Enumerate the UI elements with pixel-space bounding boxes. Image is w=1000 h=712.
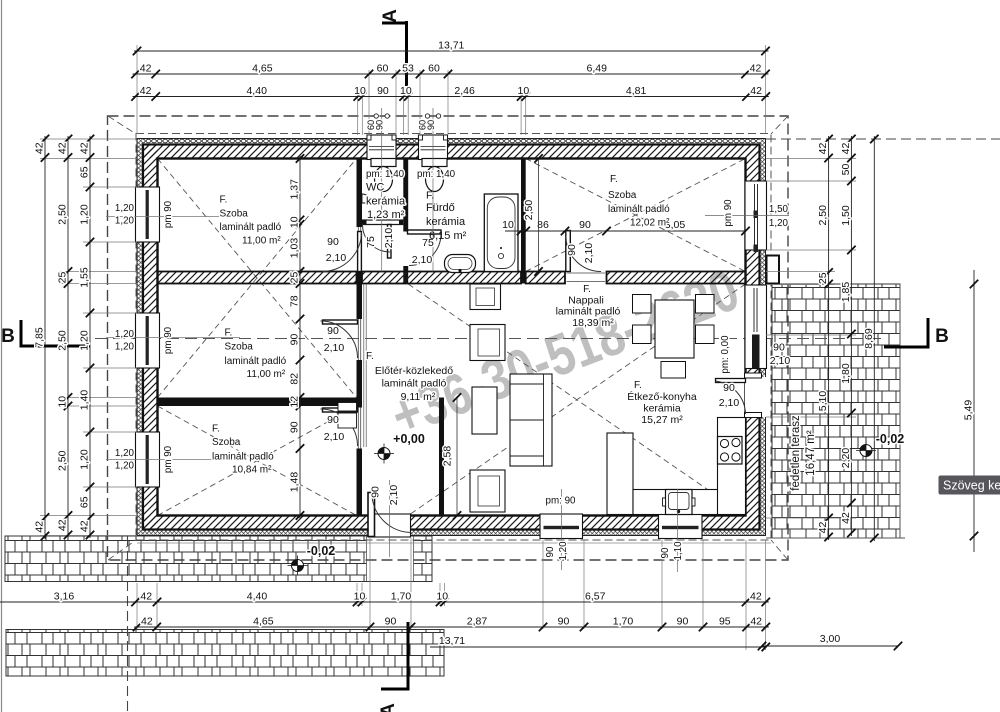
svg-text:90: 90 (426, 120, 436, 130)
dashed vertical through lower terraces (127, 536, 129, 712)
level marker entry (374, 444, 394, 464)
svg-text:42: 42 (750, 616, 762, 628)
svg-text:1,20: 1,20 (115, 203, 135, 214)
svg-text:90: 90 (566, 244, 578, 256)
door labels szoba2 (324, 325, 345, 354)
wall E horizontal szoba2/szoba3 (158, 398, 357, 407)
door labels szoba3 (324, 414, 345, 443)
wall C bath/szoba x521-526 (521, 159, 526, 284)
kitchen counter right (718, 418, 746, 515)
svg-text:1,50: 1,50 (769, 204, 789, 215)
svg-text:6,49: 6,49 (587, 63, 608, 75)
door labels szoba right (566, 243, 595, 264)
svg-text:Szoba: Szoba (225, 342, 254, 353)
WC stub wall west (362, 220, 367, 225)
svg-text:5,49: 5,49 (963, 400, 975, 421)
svg-text:A: A (378, 703, 399, 712)
room label WC (366, 169, 406, 221)
dimension chain left outer (34, 135, 50, 540)
dimension row bottom 2 (133, 616, 770, 632)
svg-text:1,20: 1,20 (79, 330, 91, 351)
svg-text:90: 90 (773, 342, 785, 354)
entry door bottom (368, 493, 412, 538)
entry door centre line (389, 480, 391, 557)
svg-text:53: 53 (402, 63, 414, 75)
svg-text:2,10: 2,10 (388, 485, 400, 506)
svg-text:2,10: 2,10 (324, 342, 345, 354)
svg-text:F.: F. (634, 380, 642, 391)
svg-text:42: 42 (34, 142, 46, 154)
page left border line (1, 0, 3, 712)
wall A below door 3 (357, 449, 363, 516)
dimension chain far right (963, 270, 979, 552)
svg-text:4,40: 4,40 (247, 591, 268, 603)
dimension row top 3 (131, 85, 770, 101)
svg-text:90: 90 (327, 236, 339, 248)
section line B dashed (95, 338, 883, 340)
svg-text:18,39 m²: 18,39 m² (572, 317, 614, 329)
dimension chain right B (840, 135, 856, 537)
level marker terrace strip (288, 556, 308, 576)
door labels szoba1 (326, 236, 347, 264)
outer wall left (137, 139, 158, 536)
svg-text:2,58: 2,58 (442, 446, 454, 467)
svg-text:1,03: 1,03 (289, 238, 301, 259)
svg-text:42: 42 (141, 616, 153, 628)
svg-text:kerámia: kerámia (366, 196, 406, 208)
svg-text:-0,02: -0,02 (307, 544, 336, 558)
diagonal szoba1-2 a (158, 159, 357, 398)
svg-text:laminált padló: laminált padló (608, 204, 670, 215)
svg-text:pm 90: pm 90 (163, 326, 174, 354)
svg-text:25: 25 (817, 272, 829, 284)
svg-text:42: 42 (817, 143, 829, 155)
door szoba right (566, 231, 601, 272)
door labels bath (412, 237, 434, 266)
sill labels bottom windows (545, 541, 684, 561)
door bath (408, 230, 442, 266)
terrace door kitchen (716, 373, 767, 418)
svg-text:4,65: 4,65 (253, 616, 274, 628)
extension lines right (766, 159, 905, 539)
svg-text:42: 42 (34, 521, 46, 533)
diagonal szoba3 a (158, 406, 357, 516)
svg-text:1,10: 1,10 (673, 541, 684, 561)
text box overlay Szoveg (939, 476, 1000, 495)
svg-text:pm: 1,40: pm: 1,40 (366, 169, 405, 180)
chain szoba right depth 2,50 (523, 154, 543, 275)
svg-text:78: 78 (289, 295, 301, 307)
diagonal szoba1-2 b (158, 159, 357, 398)
svg-text:10: 10 (502, 219, 514, 231)
window bottom living (540, 514, 583, 539)
window left szoba1 (136, 187, 160, 242)
centre marks on dashed line (374, 114, 441, 118)
svg-text:F.: F. (220, 195, 228, 206)
svg-text:13,71: 13,71 (439, 635, 465, 647)
bathtub (484, 194, 518, 272)
svg-text:10: 10 (289, 216, 301, 228)
svg-text:1,20: 1,20 (79, 204, 91, 225)
svg-text:8,69: 8,69 (863, 328, 875, 349)
svg-text:F.: F. (610, 174, 618, 185)
svg-text:90: 90 (723, 382, 735, 394)
wall B WC/bath x403-408 (403, 159, 408, 232)
svg-text:10: 10 (57, 396, 69, 408)
svg-text:2,87: 2,87 (467, 616, 488, 628)
right window centre line (705, 215, 789, 217)
svg-text:10: 10 (354, 591, 366, 603)
dimension row top 2 (131, 63, 769, 79)
terrace strip bottom-left (5, 536, 432, 582)
svg-text:86: 86 (537, 219, 549, 231)
eaves line below bottom wall (137, 542, 771, 544)
section mark A top (380, 9, 407, 86)
svg-text:12: 12 (289, 396, 301, 408)
eaves dashed rectangle (136, 134, 771, 541)
svg-text:42: 42 (840, 143, 852, 155)
corner tie SW (108, 540, 136, 560)
dashed line top right (766, 138, 1000, 140)
svg-text:1,55: 1,55 (79, 267, 91, 288)
wall D horizontal y271-283 west (szoba1/szoba2) (158, 272, 357, 284)
wall D middle under WC/bath (362, 272, 521, 284)
window right szoba (1.50) (745, 181, 767, 252)
armchair 1 (470, 325, 505, 361)
svg-text:90: 90 (370, 486, 382, 498)
svg-text:A: A (380, 9, 401, 23)
insulation top (137, 139, 766, 145)
section mark B right (884, 318, 949, 349)
stove (718, 437, 743, 465)
svg-text:pm: 1,40: pm: 1,40 (417, 169, 456, 180)
section mark A bottom (378, 622, 408, 712)
room label szoba2 (225, 328, 287, 381)
sofa (510, 374, 552, 466)
room label szoba3 (212, 424, 274, 476)
room label kitchen (627, 380, 697, 426)
svg-text:90: 90 (579, 219, 591, 231)
wall D east segment 1 (526, 272, 565, 284)
svg-text:2,10: 2,10 (770, 355, 791, 367)
svg-text:90: 90 (289, 421, 301, 433)
svg-text:16,47 m²: 16,47 m² (805, 430, 817, 476)
svg-text:B: B (1, 326, 15, 347)
corridor strip edge lines (363, 284, 365, 447)
svg-text:10,84 m²: 10,84 m² (232, 465, 272, 476)
dimension row bottom 1 (0, 591, 770, 607)
sill label right window (769, 204, 789, 229)
svg-text:1,20: 1,20 (558, 541, 569, 561)
svg-text:2,10: 2,10 (383, 228, 395, 249)
svg-text:1,20: 1,20 (115, 342, 135, 353)
svg-text:1,70: 1,70 (613, 616, 634, 628)
room label nappali (556, 284, 621, 329)
svg-text:90: 90 (327, 414, 339, 426)
outer wall right (746, 139, 766, 536)
svg-text:4,65: 4,65 (252, 63, 273, 75)
svg-text:3,16: 3,16 (54, 591, 75, 603)
wardrobe szoba3 (338, 403, 357, 429)
svg-text:+0,00: +0,00 (393, 432, 425, 446)
diagonal living b (408, 284, 745, 516)
svg-text:2,10: 2,10 (324, 431, 345, 443)
svg-text:F.: F. (583, 284, 591, 295)
svg-text:Szoba: Szoba (608, 190, 637, 201)
room label eloter (366, 351, 453, 403)
dimension chain right A (817, 135, 833, 541)
svg-text:42: 42 (57, 519, 69, 531)
svg-text:1,20: 1,20 (79, 449, 91, 470)
svg-text:65: 65 (79, 496, 91, 508)
chain interior x300 (289, 154, 305, 519)
room label szoba right (608, 174, 670, 229)
door WC (363, 225, 392, 259)
wall A vertical x357-362 upper (357, 159, 363, 228)
diagonal szoba-right b (526, 159, 746, 272)
svg-text:1,20: 1,20 (115, 448, 135, 459)
svg-text:25: 25 (57, 272, 69, 284)
sill labels left windows (115, 203, 135, 472)
svg-text:pm 90: pm 90 (163, 200, 174, 228)
svg-text:laminált padló: laminált padló (382, 378, 447, 390)
svg-text:7,85: 7,85 (34, 327, 46, 348)
top window labels 60 90 (366, 120, 436, 130)
svg-text:1,23 m²: 1,23 m² (367, 209, 405, 221)
svg-text:2,50: 2,50 (57, 450, 69, 471)
svg-text:1,48: 1,48 (289, 472, 301, 493)
svg-text:kerámia: kerámia (643, 403, 681, 415)
labels 90 2,10 living terrace door (770, 342, 791, 368)
diagonal szoba-right a (526, 159, 746, 272)
coffee table (472, 387, 497, 434)
svg-text:pm 90: pm 90 (723, 199, 734, 227)
door szoba1 (322, 232, 362, 272)
svg-text:Szöveg ke: Szöveg ke (943, 479, 1000, 493)
svg-text:F.: F. (426, 190, 434, 202)
window left szoba3 (136, 432, 160, 487)
svg-text:-0,02: -0,02 (876, 432, 905, 446)
door labels entry (370, 485, 401, 506)
svg-text:Szoba: Szoba (220, 209, 249, 220)
room label szoba1 (220, 195, 282, 247)
svg-text:laminált padló: laminált padló (220, 222, 282, 233)
terrace strip lower (6, 630, 444, 677)
extension lines left (40, 139, 240, 536)
svg-text:42: 42 (140, 591, 152, 603)
svg-text:pm: 90: pm: 90 (546, 496, 577, 507)
door szoba3 (321, 408, 358, 446)
svg-text:15,27 m²: 15,27 m² (641, 414, 683, 426)
dimension chain left mid (57, 135, 73, 539)
svg-text:42: 42 (817, 522, 829, 534)
svg-text:42: 42 (840, 512, 852, 524)
svg-text:1,85: 1,85 (840, 282, 852, 303)
svg-text:laminált padló: laminált padló (225, 356, 287, 367)
WC corner basin (362, 194, 371, 203)
svg-text:75: 75 (365, 236, 377, 248)
svg-text:1,37: 1,37 (289, 179, 301, 200)
dining table (655, 300, 694, 358)
door szoba2 (321, 320, 358, 358)
wall B lower part (403, 266, 408, 284)
svg-text:3,00: 3,00 (820, 633, 841, 645)
svg-text:2,10: 2,10 (583, 243, 595, 264)
dimension row szoba right 86/90/3,05 (502, 219, 750, 235)
svg-text:90: 90 (327, 325, 339, 337)
svg-text:42: 42 (79, 142, 91, 154)
tv cabinet (470, 284, 501, 310)
wall A between doors 2-3 (357, 360, 363, 408)
svg-text:4,40: 4,40 (246, 85, 267, 97)
svg-text:4,81: 4,81 (626, 85, 647, 97)
door frame lines szoba doors (358, 227, 605, 449)
diagonal szoba3 b (158, 406, 357, 516)
section mark B left (1, 320, 90, 348)
svg-text:13,71: 13,71 (438, 40, 464, 52)
washbasin (445, 255, 476, 273)
svg-text:42: 42 (140, 63, 152, 75)
room label bath (417, 169, 467, 242)
dimension row top total (133, 40, 770, 56)
entry walkway gap in strip (367, 537, 414, 582)
svg-text:90: 90 (545, 546, 556, 557)
dimension chain right C (863, 135, 879, 542)
svg-text:11,00 m²: 11,00 m² (247, 369, 286, 380)
WC toilet (371, 159, 396, 192)
svg-text:2,46: 2,46 (454, 85, 475, 97)
corner tie SE (771, 540, 788, 560)
svg-text:2,10: 2,10 (412, 254, 433, 266)
dimension chain left inner (79, 135, 95, 539)
corner tie NE (771, 116, 788, 134)
svg-text:1,20: 1,20 (115, 216, 135, 227)
svg-text:90: 90 (660, 547, 671, 558)
svg-text:60: 60 (377, 63, 389, 75)
insulation left (137, 139, 143, 536)
svg-text:1,50: 1,50 (840, 205, 852, 226)
svg-text:pm: 0,00: pm: 0,00 (720, 335, 731, 374)
dimension row bottom total (430, 635, 770, 651)
svg-text:10: 10 (400, 85, 412, 97)
svg-text:42: 42 (750, 591, 762, 603)
svg-text:90: 90 (558, 616, 570, 628)
svg-text:90: 90 (677, 616, 689, 628)
insulation right (760, 139, 766, 536)
WC stub wall east (399, 220, 403, 225)
svg-text:82: 82 (289, 373, 301, 385)
svg-text:WC: WC (366, 182, 384, 194)
insulation bottom (137, 530, 766, 536)
kitchen island cabinet (607, 433, 633, 515)
svg-text:10: 10 (518, 85, 530, 97)
svg-text:12,02 m²: 12,02 m² (630, 218, 670, 229)
svg-text:90: 90 (289, 334, 301, 346)
svg-text:5,10: 5,10 (817, 391, 829, 412)
wall F vertical entry/living (439, 398, 444, 516)
svg-text:2,50: 2,50 (523, 200, 535, 221)
svg-text:pm 90: pm 90 (163, 445, 174, 473)
extension lines top (137, 45, 766, 135)
window bath top (419, 135, 448, 160)
svg-text:60: 60 (428, 63, 440, 75)
level marker right terrace (856, 441, 876, 461)
window bottom kitchen (659, 514, 703, 539)
svg-text:2,20: 2,20 (840, 448, 852, 469)
window centre lines bottom (561, 489, 563, 570)
svg-text:10: 10 (436, 591, 448, 603)
svg-text:6,15 m²: 6,15 m² (429, 230, 467, 242)
diagonal living a (408, 284, 745, 516)
svg-text:25: 25 (289, 272, 301, 284)
svg-text:42: 42 (140, 85, 152, 97)
svg-text:2,10: 2,10 (326, 252, 347, 264)
wall A between doors 1-2 (357, 272, 363, 320)
svg-text:1,20: 1,20 (115, 329, 135, 340)
svg-text:F.: F. (225, 328, 233, 339)
dining chairs (633, 295, 715, 379)
WC front wall thin lines (362, 219, 403, 221)
svg-text:1,80: 1,80 (840, 363, 852, 384)
svg-text:6,57: 6,57 (585, 591, 606, 603)
svg-text:B: B (935, 326, 949, 347)
window left szoba2 (136, 313, 160, 368)
svg-text:fedetlen terasz: fedetlen terasz (790, 415, 802, 491)
svg-text:2,50: 2,50 (817, 205, 829, 226)
wall D east segment 2 (607, 272, 746, 284)
wall face lines (137, 139, 766, 536)
chain living 2,58 (442, 393, 462, 519)
outer dash-dot property rectangle (108, 116, 789, 560)
outer wall top (137, 139, 766, 159)
svg-text:10: 10 (354, 85, 366, 97)
corner tie NW (108, 116, 136, 134)
svg-text:2,50: 2,50 (57, 330, 69, 351)
svg-text:65: 65 (79, 166, 91, 178)
watermark phone number (383, 258, 748, 449)
svg-text:1,20: 1,20 (769, 218, 789, 229)
kitchen counter bottom (633, 490, 746, 515)
terrace door/window living room (745, 285, 767, 369)
svg-text:90: 90 (377, 85, 389, 97)
svg-text:Fürdő: Fürdő (426, 202, 455, 214)
svg-text:1,70: 1,70 (391, 591, 412, 603)
svg-text:90: 90 (385, 616, 397, 628)
svg-text:Szoba: Szoba (212, 437, 241, 448)
door labels WC (365, 228, 395, 249)
svg-text:laminált padló: laminált padló (212, 452, 274, 463)
svg-text:laminált padló: laminált padló (556, 306, 621, 318)
svg-text:1,40: 1,40 (79, 390, 91, 411)
svg-text:kerámia: kerámia (426, 216, 466, 228)
equipment outside right wall (767, 256, 780, 284)
terrace right fedetlen terasz (772, 284, 900, 538)
svg-text:Étkező-konyha: Étkező-konyha (627, 390, 697, 403)
svg-text:95: 95 (719, 616, 731, 628)
svg-text:F.: F. (366, 351, 374, 362)
svg-text:1,20: 1,20 (115, 461, 135, 472)
svg-text:90: 90 (375, 120, 385, 130)
window WC top (367, 135, 396, 160)
svg-text:Előtér-közlekedő: Előtér-közlekedő (375, 365, 453, 377)
svg-text:9,11 m²: 9,11 m² (401, 391, 436, 403)
svg-text:42: 42 (750, 63, 762, 75)
kitchen sink (663, 490, 696, 515)
svg-text:50: 50 (840, 164, 852, 176)
svg-text:11,00 m²: 11,00 m² (242, 236, 281, 247)
pm labels windows (163, 199, 734, 507)
svg-text:F.: F. (212, 424, 220, 435)
